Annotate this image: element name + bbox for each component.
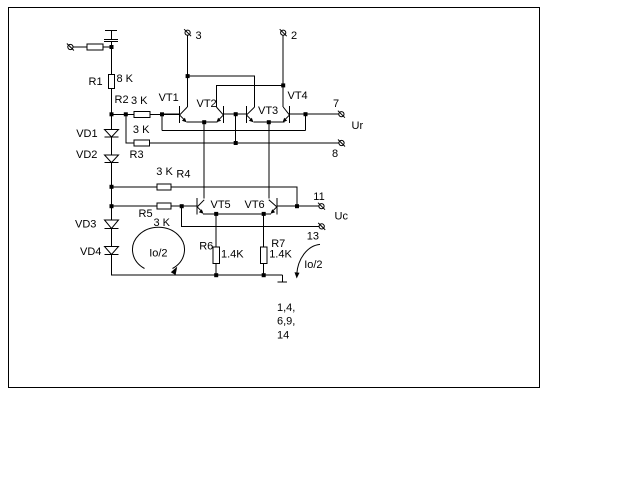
capacitor C1 stem xyxy=(111,31,113,40)
current source Io/2 right xyxy=(295,244,321,278)
input resistor xyxy=(87,44,103,50)
svg-text:7: 7 xyxy=(333,98,339,110)
transistor VT1 xyxy=(179,106,187,123)
wire terminal 2 to VT4 collector xyxy=(282,35,284,107)
terminal 2 xyxy=(280,29,287,36)
wire VD3 to VD4 xyxy=(111,229,113,247)
wire node C down xyxy=(161,114,163,130)
node N junction xyxy=(295,204,299,208)
svg-text:13: 13 xyxy=(307,231,319,243)
node A junction xyxy=(110,112,114,116)
svg-text:2: 2 xyxy=(291,30,297,42)
wire node L to R5 xyxy=(112,205,158,207)
wire node A to R2 xyxy=(112,113,135,115)
wire emitter bus VT1 VT2 xyxy=(186,121,217,123)
wire R6 to bottom rail xyxy=(215,263,217,275)
svg-text:R2: R2 xyxy=(115,94,129,106)
node R junction xyxy=(262,273,266,277)
wire R3 to terminal 8 xyxy=(150,142,340,144)
wire node O to R6 xyxy=(215,214,217,247)
diode VD4 xyxy=(105,247,119,255)
wire emitter bus VT3 VT4 xyxy=(253,121,284,123)
node Q junction xyxy=(214,273,218,277)
svg-text:Io/2: Io/2 xyxy=(149,247,167,259)
wire up to node D xyxy=(305,114,307,130)
svg-text:14: 14 xyxy=(277,329,289,341)
terminal 3 xyxy=(184,29,191,36)
svg-text:VD3: VD3 xyxy=(75,218,96,230)
svg-text:1.4K: 1.4K xyxy=(221,249,244,261)
svg-text:VT6: VT6 xyxy=(245,199,265,211)
node B junction xyxy=(124,112,128,116)
svg-text:3 K: 3 K xyxy=(131,95,148,107)
wire node B down to R3 xyxy=(126,114,134,143)
svg-text:3: 3 xyxy=(196,30,202,42)
svg-text:VT3: VT3 xyxy=(258,105,278,117)
wire VD2 down rail xyxy=(111,163,113,220)
node D junction xyxy=(304,112,308,116)
transistor VT6 xyxy=(269,198,277,215)
wire node M down to terminal 13 xyxy=(182,206,320,226)
svg-text:Ur: Ur xyxy=(352,120,364,132)
svg-text:VD2: VD2 xyxy=(76,149,97,161)
node I junction xyxy=(202,120,206,124)
resistor R6 xyxy=(213,247,219,263)
svg-text:1,4,: 1,4, xyxy=(277,302,295,314)
svg-text:Io/2: Io/2 xyxy=(304,259,322,271)
svg-text:1.4K: 1.4K xyxy=(269,249,292,261)
wire resistor to node xyxy=(103,46,112,48)
wire terminal 3 to VT1 collector xyxy=(187,35,189,107)
wire R5 to VT5 base xyxy=(171,205,197,207)
svg-text:R5: R5 xyxy=(139,208,153,220)
wire VT6 base to terminal 11 xyxy=(277,205,319,207)
transistor VT4 xyxy=(283,106,290,123)
wire VD1 to VD2 xyxy=(111,137,113,155)
terminal 11 xyxy=(318,203,325,210)
svg-text:R3: R3 xyxy=(130,149,144,161)
wire node G to VT2 collector branch xyxy=(216,85,283,107)
node O junction xyxy=(214,212,218,216)
wire VT2-VT3 base link xyxy=(224,113,247,115)
svg-text:3 K: 3 K xyxy=(156,166,173,178)
node L junction R5 tap xyxy=(110,204,114,208)
node C junction xyxy=(160,112,164,116)
node G junction xyxy=(281,83,285,87)
terminal 13 xyxy=(318,223,325,230)
svg-text:8: 8 xyxy=(332,148,338,160)
resistor R7 xyxy=(261,247,267,263)
wire node F to VT3 collector branch xyxy=(188,76,255,107)
terminal 8 xyxy=(338,140,345,147)
wire node P to R7 xyxy=(263,214,265,247)
wire node to R1 xyxy=(111,47,113,75)
svg-text:VT2: VT2 xyxy=(197,98,217,110)
resistor R3 xyxy=(134,140,150,146)
wire node K to R4 xyxy=(112,186,158,188)
resistor R2 xyxy=(134,111,150,117)
capacitor C1 plate 2 xyxy=(104,41,118,43)
node F junction xyxy=(186,74,190,78)
wire input terminal to resistor xyxy=(73,46,87,48)
wire R7 to bottom rail xyxy=(263,263,265,275)
wire R1 to node A xyxy=(111,89,113,130)
wire node J down to VT6 collector xyxy=(268,122,270,198)
svg-text:VT5: VT5 xyxy=(211,199,231,211)
border frame xyxy=(9,8,540,388)
current source Io/2 left xyxy=(133,227,185,275)
wire VT4 base to terminal 7 xyxy=(290,113,339,115)
diode VD3 xyxy=(105,220,119,229)
resistor R5 xyxy=(157,203,171,209)
wire VT1 base link xyxy=(162,113,179,115)
transistor VT5 xyxy=(197,198,204,215)
resistor R1 xyxy=(108,75,114,89)
wire VD4 to bottom rail xyxy=(112,255,283,276)
node input junction xyxy=(110,45,114,49)
wire R4 to VT6 base xyxy=(171,187,297,206)
diode VD1 xyxy=(105,130,119,138)
node P junction xyxy=(262,212,266,216)
svg-text:VD1: VD1 xyxy=(76,128,97,140)
node H junction xyxy=(234,112,238,116)
svg-text:R1: R1 xyxy=(89,76,103,88)
input terminal xyxy=(67,44,74,51)
wire cap to input node xyxy=(111,42,113,48)
svg-text:8 K: 8 K xyxy=(117,73,134,85)
wire cross line to terminal 7 branch xyxy=(162,130,306,132)
diode VD2 xyxy=(105,155,119,163)
svg-text:VD4: VD4 xyxy=(80,246,101,258)
capacitor C1 plate 1 xyxy=(104,39,118,41)
wire node H down to terminal8 line xyxy=(235,114,237,143)
node M junction xyxy=(180,204,184,208)
node J junction xyxy=(267,120,271,124)
ground xyxy=(278,275,288,282)
transistor VT2 xyxy=(216,106,223,123)
svg-text:R4: R4 xyxy=(176,168,190,180)
svg-text:VT4: VT4 xyxy=(288,90,308,102)
svg-text:3 K: 3 K xyxy=(133,124,150,136)
capacitor C1 top bar xyxy=(105,30,117,32)
wire emitter bus VT5 VT6 xyxy=(203,213,271,215)
terminal 7 xyxy=(338,111,345,118)
node E junction xyxy=(234,141,238,145)
svg-text:VT1: VT1 xyxy=(159,92,179,104)
wire R2 to VT1 base xyxy=(150,113,179,115)
transistor VT3 xyxy=(246,106,254,123)
svg-text:R6: R6 xyxy=(199,241,213,253)
svg-text:11: 11 xyxy=(313,191,324,203)
node K junction R4 tap xyxy=(110,185,114,189)
resistor R4 xyxy=(157,184,171,190)
wire node I down to VT5 collector xyxy=(203,122,205,198)
svg-text:6,9,: 6,9, xyxy=(277,315,295,327)
svg-text:Uc: Uc xyxy=(335,210,349,222)
